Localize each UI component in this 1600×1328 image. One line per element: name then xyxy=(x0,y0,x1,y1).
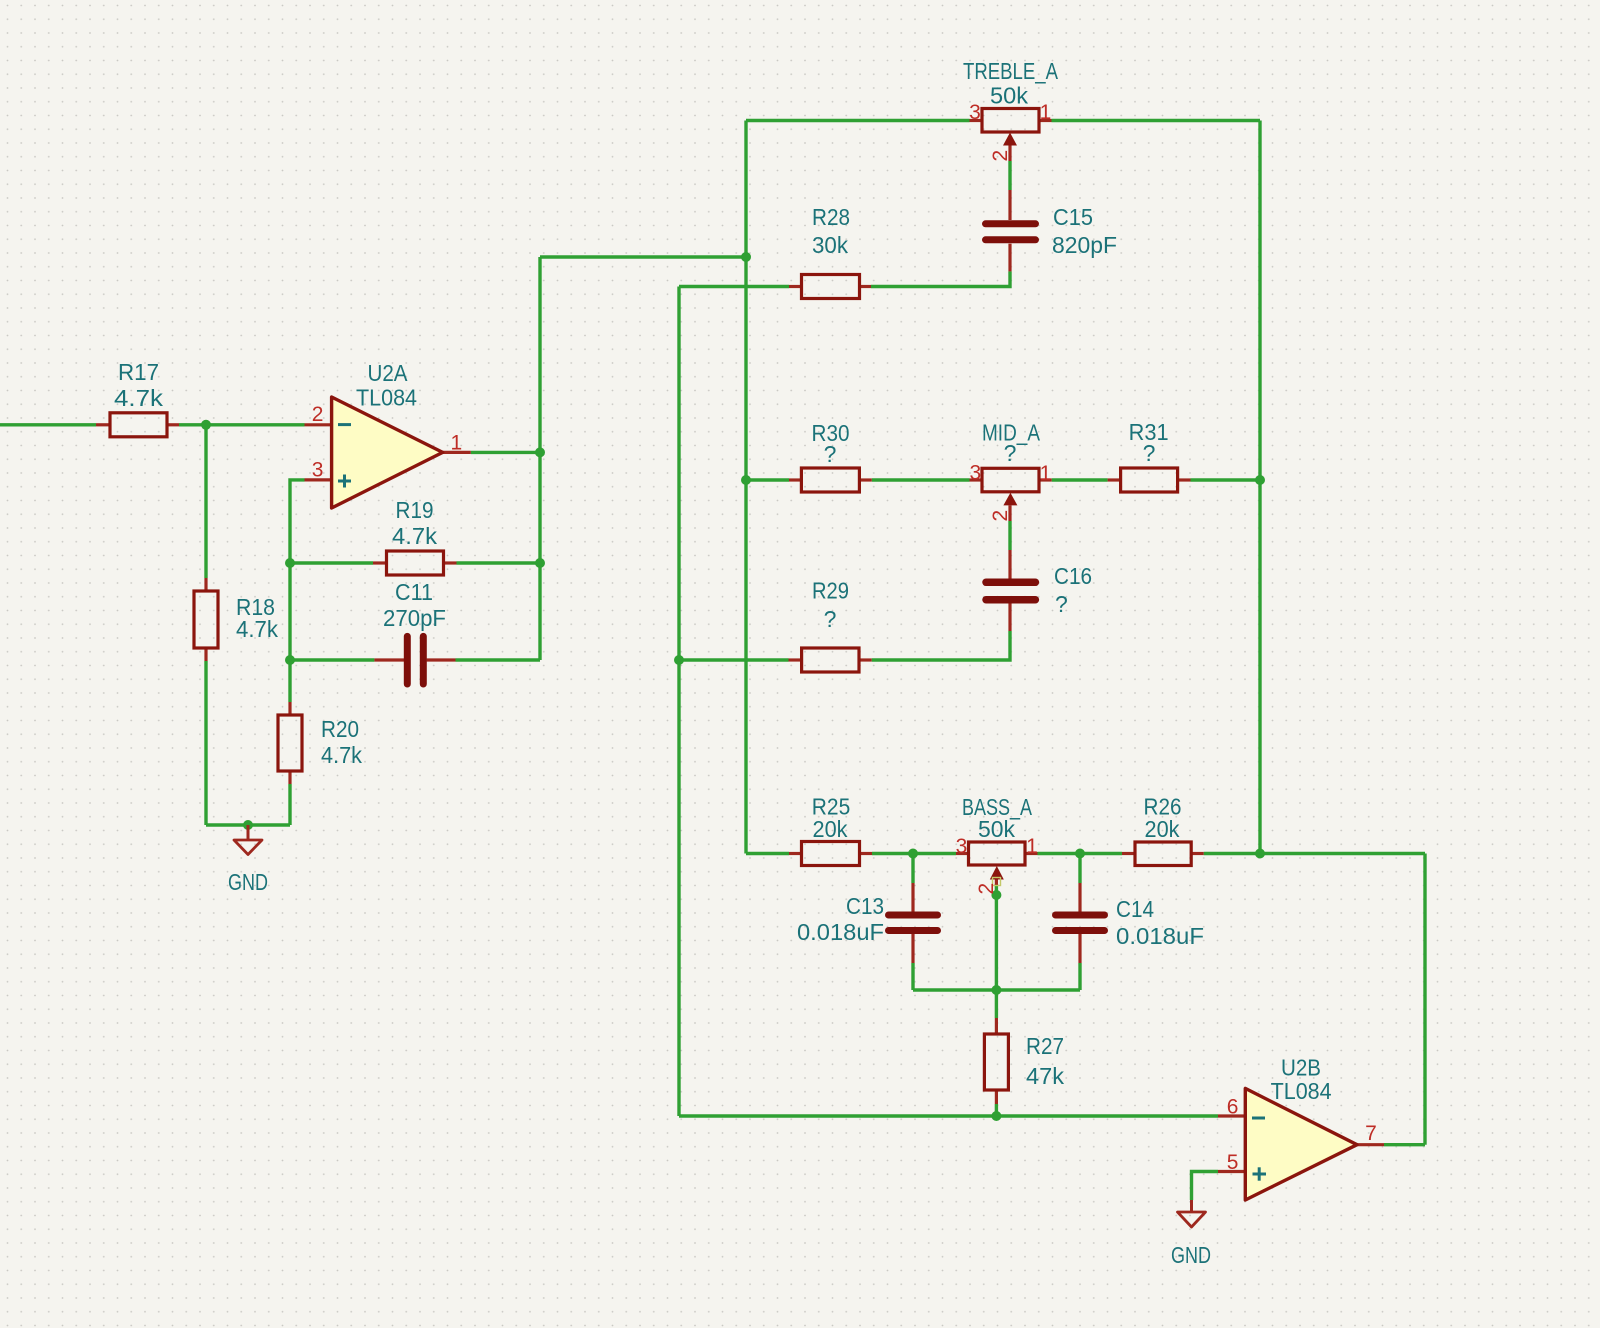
svg-text:50k: 50k xyxy=(978,816,1015,842)
ground GND left xyxy=(228,825,268,895)
wire output vertical x540 xyxy=(538,257,541,660)
svg-text:1: 1 xyxy=(1040,101,1052,124)
svg-text:3: 3 xyxy=(969,101,981,124)
wire treble row left xyxy=(746,119,970,122)
wire bass wiper down to R27 top xyxy=(995,884,998,1018)
svg-text:?: ? xyxy=(1055,591,1068,617)
node R29 row tee xyxy=(674,655,684,665)
svg-text:?: ? xyxy=(1143,440,1156,466)
wire right vertical x1260 xyxy=(1258,121,1261,854)
svg-text:R17: R17 xyxy=(118,359,159,385)
wire bass row left xyxy=(746,852,789,855)
wire R18 bottom to GND row xyxy=(204,661,207,825)
svg-text:TREBLE_A: TREBLE_A xyxy=(963,58,1059,84)
svg-text:TL084: TL084 xyxy=(356,385,417,411)
node mid row left tee xyxy=(741,475,751,485)
wire R28 row left vertical x679 xyxy=(677,287,680,1117)
wire R25 to BASS pot with C13 tap xyxy=(872,852,956,855)
svg-text:2: 2 xyxy=(312,403,324,426)
svg-text:7: 7 xyxy=(1365,1122,1377,1145)
svg-text:820pF: 820pF xyxy=(1052,232,1117,258)
svg-text:4.7k: 4.7k xyxy=(236,616,278,642)
svg-text:270pF: 270pF xyxy=(383,605,446,631)
svg-text:0.018uF: 0.018uF xyxy=(1116,923,1204,949)
wire C11 row right to corner xyxy=(456,658,541,661)
wire R27 bottom to pin6 row xyxy=(995,1104,998,1116)
wire C14 top tap xyxy=(1078,854,1081,884)
svg-text:R27: R27 xyxy=(1026,1033,1064,1059)
resistor R17 xyxy=(96,359,179,437)
svg-text:R20: R20 xyxy=(321,716,359,742)
svg-text:?: ? xyxy=(1004,440,1017,466)
svg-text:2: 2 xyxy=(989,150,1012,162)
svg-text:6: 6 xyxy=(1227,1096,1239,1119)
wire R19 row right xyxy=(457,561,541,564)
node R19 right xyxy=(535,558,545,568)
svg-text:30k: 30k xyxy=(812,232,848,258)
svg-text:GND: GND xyxy=(228,869,268,895)
svg-text:GND: GND xyxy=(1171,1242,1211,1268)
node feed tee x746 xyxy=(741,252,751,262)
svg-text:R29: R29 xyxy=(812,578,849,604)
node C14 tap xyxy=(1075,849,1085,859)
wire MID pot to R31 xyxy=(1052,478,1108,481)
svg-text:C15: C15 xyxy=(1053,204,1093,230)
wire cap bottom row xyxy=(913,988,1080,991)
wire GND row horizontal xyxy=(206,823,290,826)
node R17/R18/pin2 xyxy=(201,420,211,430)
wire vertical x746 treble corner to bass row xyxy=(744,121,747,854)
svg-text:1: 1 xyxy=(1040,462,1052,485)
svg-text:3: 3 xyxy=(312,458,324,481)
capacitor C13 xyxy=(797,883,938,963)
node R27 bottom / pin6 xyxy=(991,1111,1001,1121)
svg-text:1: 1 xyxy=(1026,835,1038,858)
svg-text:4.7k: 4.7k xyxy=(114,385,164,411)
svg-text:C13: C13 xyxy=(846,893,884,919)
node C13 tap xyxy=(908,849,918,859)
node gnd left xyxy=(243,820,253,830)
wire U2A pin3 corner down xyxy=(290,480,305,702)
svg-text:50k: 50k xyxy=(990,83,1029,109)
wire U2B pin5 to gnd corner xyxy=(1192,1172,1219,1201)
potentiometer MID_A xyxy=(969,420,1051,522)
svg-text:TL084: TL084 xyxy=(1271,1078,1332,1104)
resistor R26 xyxy=(1122,794,1204,866)
resistor R18 xyxy=(194,578,278,661)
svg-text:3: 3 xyxy=(956,835,968,858)
svg-text:?: ? xyxy=(824,441,837,467)
wire mid wiper stem green xyxy=(1008,521,1011,550)
node bass wiper xyxy=(991,890,1001,900)
wire U2A output to vertical xyxy=(471,451,540,454)
resistor R30 xyxy=(789,420,872,492)
svg-text:U2A: U2A xyxy=(368,360,409,386)
wire R30 to MID pot xyxy=(872,478,970,481)
resistor R28 xyxy=(789,204,871,299)
node C11 left xyxy=(285,655,295,665)
svg-text:R19: R19 xyxy=(396,497,434,523)
svg-text:4.7k: 4.7k xyxy=(321,742,362,768)
wire BASS pot to R26 with C14 tap xyxy=(1038,852,1123,855)
wire C11 row left xyxy=(290,658,374,661)
wire treble wiper stem green xyxy=(1008,161,1011,190)
resistor R29 xyxy=(789,578,872,673)
wire R31 to right vertical xyxy=(1191,478,1261,481)
resistor R19 xyxy=(373,497,457,575)
wire node R17 down to R18 xyxy=(204,425,207,578)
wire R17 to U2A pin2, junction node xyxy=(179,423,305,426)
wire R19 row left xyxy=(290,561,373,564)
wire top feed horizontal y257 xyxy=(540,255,746,258)
op-amp U2B xyxy=(1218,1054,1384,1200)
svg-text:4.7k: 4.7k xyxy=(392,523,438,549)
resistor R20 xyxy=(278,702,362,784)
node R19 left xyxy=(285,558,295,568)
wire input left to R17 xyxy=(0,423,96,426)
wire C14 bottom xyxy=(1078,963,1081,990)
wire mid row left xyxy=(746,478,789,481)
svg-text:?: ? xyxy=(824,606,837,632)
potentiometer BASS_A xyxy=(956,794,1038,895)
wire R28 to C15 bottom corner xyxy=(871,271,1010,286)
wire treble row right xyxy=(1052,119,1261,122)
capacitor C15 xyxy=(986,190,1118,271)
node mid row right tee xyxy=(1255,475,1265,485)
svg-text:0.018uF: 0.018uF xyxy=(797,919,884,945)
node cap bottom row / R27 xyxy=(991,985,1001,995)
resistor R25 xyxy=(789,794,872,866)
svg-text:C14: C14 xyxy=(1116,896,1154,922)
wire R29 row left xyxy=(679,658,789,661)
wire R28 row left xyxy=(679,285,789,288)
svg-text:3: 3 xyxy=(969,462,981,485)
svg-text:20k: 20k xyxy=(1145,816,1180,842)
wire feedback vertical x1425 xyxy=(1423,854,1426,1145)
capacitor C16 xyxy=(986,550,1092,631)
potentiometer TREBLE_A xyxy=(963,58,1059,162)
wire U2B pin6 row xyxy=(679,1114,1218,1117)
wire C13 top tap xyxy=(911,854,914,884)
wire R20 bottom to GND row xyxy=(288,784,291,825)
op-amp U2A xyxy=(305,360,471,508)
svg-text:47k: 47k xyxy=(1026,1063,1065,1089)
ground GND right xyxy=(1171,1200,1211,1268)
resistor R31 xyxy=(1108,419,1191,492)
capacitor C11 xyxy=(374,579,455,684)
svg-text:C11: C11 xyxy=(395,579,433,605)
svg-text:1: 1 xyxy=(450,431,462,454)
svg-text:C16: C16 xyxy=(1054,563,1092,589)
svg-text:2: 2 xyxy=(989,510,1012,522)
capacitor C14 xyxy=(1056,883,1205,963)
wire C16 bottom to R29 row corner xyxy=(872,631,1010,660)
svg-text:2: 2 xyxy=(975,883,998,895)
svg-text:R28: R28 xyxy=(812,204,850,230)
resistor R27 xyxy=(984,1018,1064,1104)
svg-text:U2B: U2B xyxy=(1281,1054,1321,1080)
wire U2B output xyxy=(1384,1143,1425,1146)
wire C13 bottom xyxy=(911,963,914,990)
node U2A out xyxy=(535,447,545,457)
svg-text:5: 5 xyxy=(1227,1151,1239,1174)
node bass out tee xyxy=(1255,849,1265,859)
svg-text:20k: 20k xyxy=(813,816,848,842)
wire R26 to output node and right xyxy=(1204,852,1425,855)
